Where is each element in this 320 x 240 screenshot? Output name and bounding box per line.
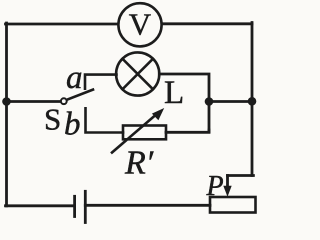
node dot left xyxy=(2,97,11,106)
svg-text:b: b xyxy=(64,106,81,142)
wire bottom right xyxy=(85,204,210,207)
rheostat R' box xyxy=(123,126,166,140)
svg-text:S: S xyxy=(44,102,61,137)
lamp X cross xyxy=(123,59,153,89)
potentiometer P box xyxy=(210,197,256,213)
lamp L circle xyxy=(116,52,159,95)
svg-text:P: P xyxy=(206,171,224,202)
rheostat arrowhead xyxy=(152,108,164,120)
battery plate long xyxy=(84,191,87,222)
wire right vertical xyxy=(251,23,254,176)
switch blade xyxy=(66,90,93,100)
wire top right xyxy=(162,22,252,25)
wire bottom left xyxy=(6,204,75,207)
wire lamp right xyxy=(159,74,209,132)
battery plate short xyxy=(73,196,76,216)
node dot right xyxy=(248,97,257,106)
wire top left xyxy=(6,23,119,26)
wire jog to P arrow xyxy=(228,174,254,177)
svg-text:V: V xyxy=(129,7,152,42)
voltmeter V xyxy=(118,3,161,46)
node dot middle xyxy=(205,97,214,106)
P arrowhead xyxy=(223,186,231,197)
svg-text:R′: R′ xyxy=(124,145,154,182)
wire switch feed xyxy=(7,100,62,103)
contact b bracket xyxy=(86,108,124,132)
switch pivot xyxy=(61,98,67,104)
svg-text:L: L xyxy=(164,75,184,111)
contact a bracket xyxy=(85,75,117,89)
rheostat arrow xyxy=(112,113,159,153)
wire P arrow shaft xyxy=(226,176,229,190)
wire rheostat right xyxy=(166,130,209,132)
wire node link xyxy=(209,100,252,103)
svg-text:a: a xyxy=(66,60,83,96)
wire left vertical xyxy=(5,23,8,206)
